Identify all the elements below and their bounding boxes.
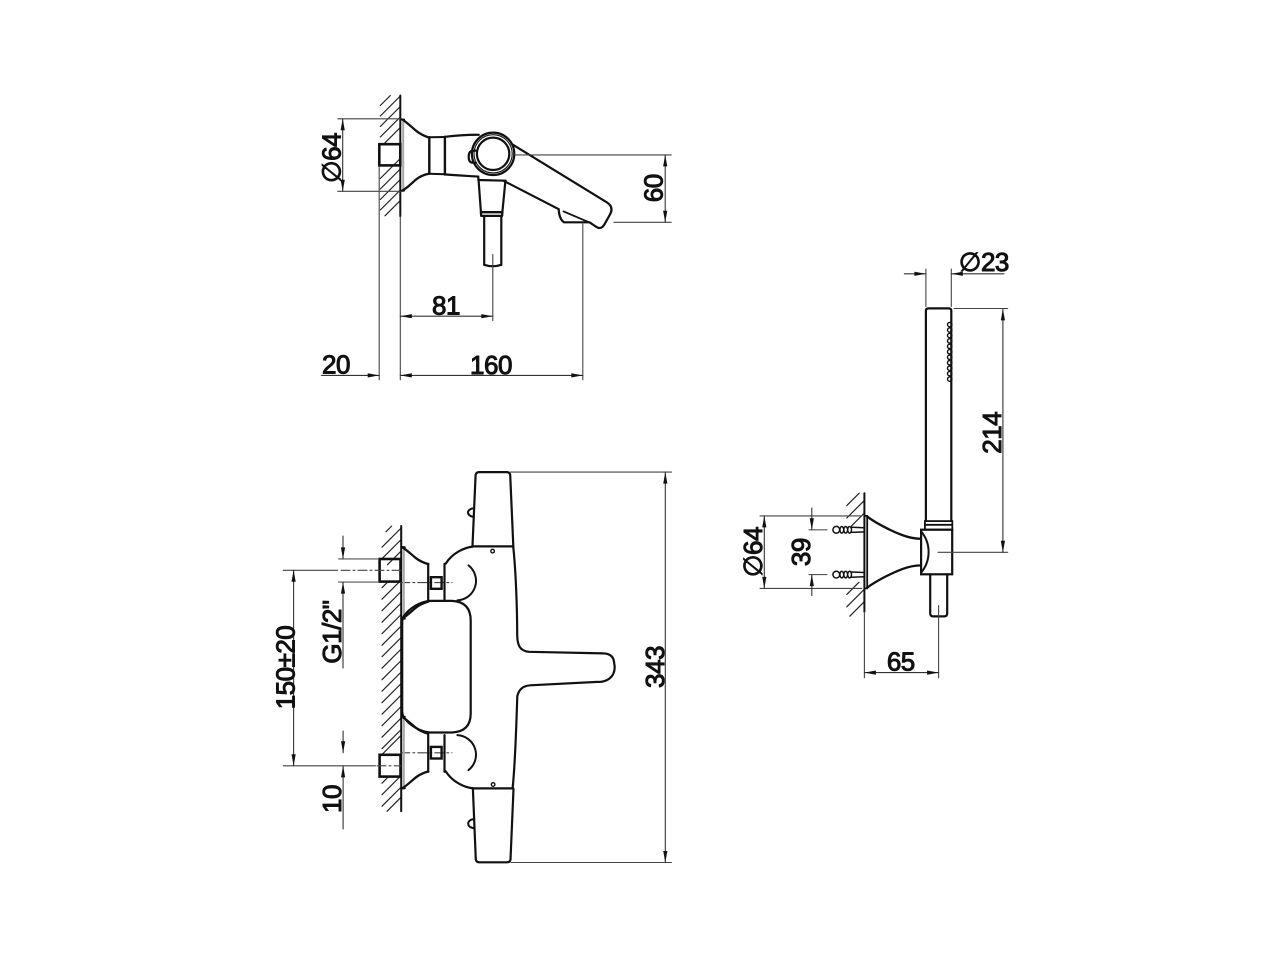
svg-text:39: 39: [786, 538, 816, 566]
bottom handle: [473, 789, 514, 862]
dim phi23 right arrow: [951, 273, 1004, 275]
bottom band lines: [427, 735, 429, 772]
knob outer circle: [472, 133, 514, 175]
svg-text:∅64: ∅64: [317, 133, 347, 183]
top band square: [431, 577, 442, 589]
svg-text:65: 65: [887, 647, 915, 677]
top mixer centerline dash-dot: [401, 582, 452, 584]
dim 60 ticks: [515, 154, 672, 156]
dim 65 line: [864, 672, 938, 674]
top fixing screw: [833, 526, 865, 533]
dim phi64 line: [763, 516, 765, 589]
top inlet centerline solid: [283, 569, 337, 571]
G1/2 dim upper segment: [342, 536, 344, 559]
G1/2 dim lower segment: [342, 582, 344, 668]
wall hatching: [382, 526, 401, 811]
top boss arc: [457, 565, 476, 600]
wall hatching: [380, 96, 400, 216]
svg-text:81: 81: [432, 291, 460, 321]
top escutcheon plate: [403, 547, 405, 618]
wall line: [400, 526, 402, 811]
dim phi64 ticks: [760, 515, 862, 517]
escutcheon trumpet: [403, 120, 429, 138]
holder block: [921, 530, 952, 575]
svg-text:150±20: 150±20: [270, 626, 300, 710]
bottom band square: [431, 747, 442, 759]
top wall square: [380, 559, 401, 582]
holder trumpet top edge: [867, 516, 921, 539]
top band lines: [427, 564, 429, 601]
bottom mixer centerline dash-dot: [401, 752, 452, 754]
tube centerline: [938, 606, 940, 678]
bottom handle screw dot: [491, 783, 495, 787]
dim 214 ticks: [954, 308, 1008, 310]
svg-text:∅23: ∅23: [959, 247, 1009, 277]
top inlet centerline dash-dot: [341, 569, 401, 571]
dim 39 upper segment: [811, 508, 813, 530]
dim phi23 left arrow: [904, 273, 926, 275]
svg-text:214: 214: [977, 412, 1007, 454]
hand shower wand: [926, 308, 951, 521]
central body blob: [402, 601, 471, 733]
body right edge and spout: [513, 546, 615, 787]
svg-text:G1/2": G1/2": [317, 600, 347, 663]
top escutcheon trumpet: [403, 548, 428, 565]
bottom body S-curve: [446, 771, 474, 788]
svg-text:20: 20: [322, 350, 350, 380]
top handle nub: [468, 508, 474, 517]
spout aerator inner line: [564, 211, 592, 223]
wall extension line down to 65 dim: [863, 612, 865, 678]
dim 81 line: [400, 315, 493, 317]
knob inner circle: [477, 138, 509, 170]
dim phi23 extension lines: [925, 269, 927, 307]
top handle joint line: [473, 545, 513, 547]
dim 343 line: [664, 472, 666, 862]
handle outlet tube: [930, 574, 947, 616]
lever handle ring band: [481, 212, 503, 216]
bottom fixing screw: [833, 571, 865, 578]
dim 10 lower segment: [342, 766, 344, 829]
valve body top edge: [445, 135, 479, 137]
dim phi64 line: [342, 119, 344, 192]
dim 150+-20 line: [293, 570, 295, 766]
wand nut: [925, 521, 952, 530]
knob middle ring: [474, 135, 512, 173]
dim 160 extension from spout: [582, 224, 584, 380]
holder trumpet bottom edge: [867, 565, 921, 588]
dim 214 line: [1002, 309, 1004, 552]
top handle screw dot: [491, 549, 495, 553]
svg-text:60: 60: [639, 174, 669, 202]
dim 60 line: [664, 155, 666, 222]
lever handle cylinder: [484, 217, 501, 266]
handle centerline extension: [492, 255, 494, 321]
valve body bottom edge: [445, 174, 479, 180]
extension line from square (20 dim): [378, 166, 380, 380]
bottom handle nub: [468, 819, 474, 828]
dim 20 line with arrow: [322, 374, 380, 376]
svg-text:10: 10: [317, 785, 347, 813]
dim 160 line: [400, 374, 583, 376]
svg-text:160: 160: [470, 350, 512, 380]
wall line: [863, 493, 865, 612]
svg-text:∅64: ∅64: [738, 527, 768, 577]
dim 39 lower segment: [811, 575, 813, 596]
G1/2 dim ticks: [339, 558, 378, 560]
wall line: [399, 96, 401, 217]
holder cup arc: [921, 532, 928, 573]
bottom handle joint line: [473, 787, 513, 789]
dim 343 ticks: [510, 471, 671, 473]
wall inlet square: [379, 144, 400, 165]
dim 39 ticks: [809, 529, 827, 531]
wall extension line down to 160 dim: [399, 216, 401, 380]
lever handle cone: [478, 179, 505, 182]
spray nozzle dots: [948, 322, 952, 381]
holder plate: [865, 516, 868, 589]
bottom boss arc: [457, 735, 476, 770]
bottom inlet centerline solid: [283, 765, 375, 767]
knob side button nub: [469, 151, 476, 163]
dim 10 upper segment: [342, 731, 344, 753]
wall hatching: [847, 493, 865, 616]
escutcheon plate: [402, 120, 404, 191]
bottom inlet centerline dash-dot: [377, 765, 401, 767]
svg-text:343: 343: [640, 646, 670, 688]
dim phi64 ticks: [338, 118, 401, 120]
top body S-curve: [446, 547, 474, 564]
spout outline: [503, 144, 611, 228]
bottom wall square: [380, 755, 401, 777]
bottom escutcheon trumpet: [403, 717, 428, 734]
bottom escutcheon plate: [403, 717, 405, 788]
neck rings: [428, 137, 430, 174]
top handle: [473, 472, 514, 546]
